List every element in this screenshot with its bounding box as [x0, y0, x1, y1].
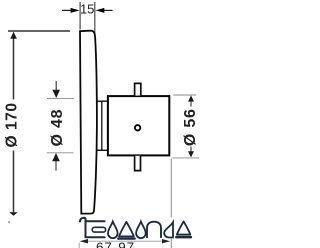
dim D170 bottom tick	[8, 221, 10, 223]
dim D48 top arrow	[52, 90, 60, 98]
dim 15 right extension line	[94, 2, 96, 41]
svg-text:Ø 170: Ø 170	[4, 103, 21, 148]
logo letter D (triangle with base)	[119, 222, 134, 237]
svg-text:Ø 56: Ø 56	[182, 108, 199, 146]
dim 15 right arrow	[103, 9, 113, 11]
dim D170 vertical line upper	[13, 37, 15, 100]
dim D170 bottom arrow	[9, 212, 17, 215]
dim D48 top extension line	[47, 97, 74, 99]
sleeve seam	[101, 101, 103, 150]
dim 15 left extension line	[79, 2, 81, 30]
logo letter V (stylized B with hook)	[80, 218, 106, 238]
dim 67-97 left extension line	[78, 243, 80, 248]
valve body	[108, 96, 169, 155]
svg-text:15: 15	[80, 2, 94, 17]
dim D170 top extension line	[8, 30, 70, 32]
logo letter P (arch)	[147, 222, 161, 238]
dim D56 bottom arrow	[190, 147, 192, 152]
dim D170 vertical line lower	[13, 151, 15, 214]
logo letter A (sail)	[164, 222, 173, 237]
dim D56 top arrow	[188, 95, 194, 101]
top stem	[135, 83, 141, 95]
sleeve top edge	[97, 100, 108, 102]
svg-text:67-97: 67-97	[96, 240, 135, 248]
logo letter O (droplet)	[136, 222, 146, 239]
svg-text:Ø 48: Ø 48	[49, 109, 66, 147]
dim D48 bottom stem	[55, 161, 57, 171]
dim D48 top stem	[55, 81, 57, 91]
dim D56 top extension line	[173, 94, 196, 96]
bottom stem	[135, 156, 141, 171]
dim D48 bottom extension line	[47, 152, 74, 154]
dim 67-97 right descending extension line	[170, 159, 172, 218]
screw circle	[135, 125, 140, 130]
dim D48 bottom arrow	[52, 153, 60, 161]
dim 67-97 left arrow	[80, 239, 89, 243]
logo letter D (triangle with base)	[177, 221, 190, 234]
dim 67-97 line	[87, 240, 163, 242]
dim D56 bottom extension line	[172, 157, 199, 159]
dim 15 left arrow	[62, 9, 72, 11]
logo letter O (droplet)	[108, 222, 118, 239]
sleeve bottom edge	[96, 149, 107, 151]
dim D170 top arrow	[10, 32, 17, 39]
escutcheon plate side view	[80, 31, 97, 214]
dim 67-97 right arrow	[162, 239, 170, 243]
